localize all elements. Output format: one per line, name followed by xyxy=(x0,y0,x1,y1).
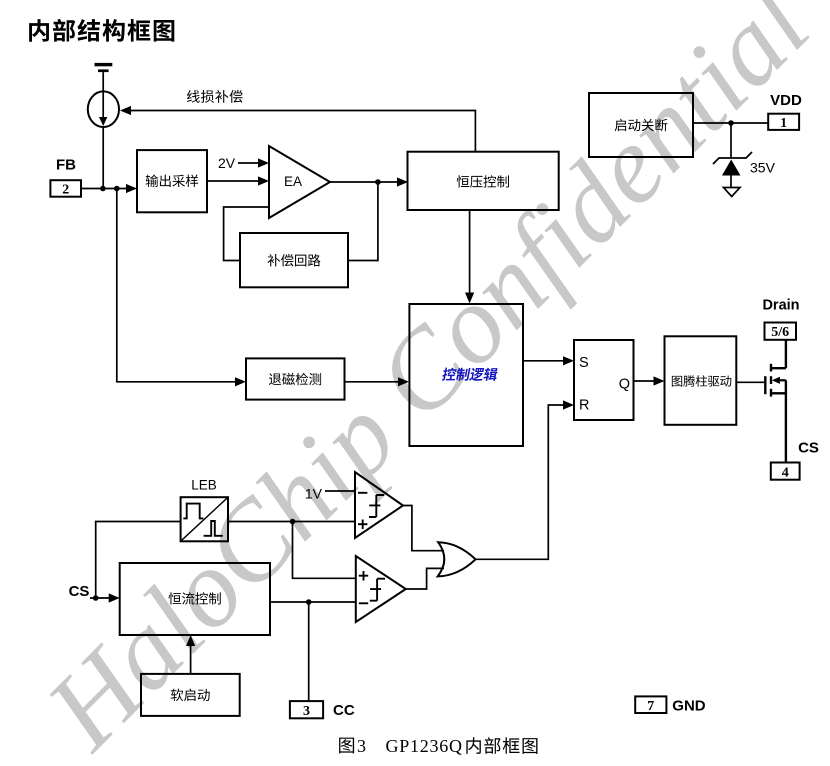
wire VDD xyxy=(693,122,768,124)
pin label CS xyxy=(798,440,819,457)
junction xyxy=(290,519,296,525)
svg-text:Drain: Drain xyxy=(762,298,799,314)
wire xyxy=(730,123,732,158)
wire xyxy=(102,126,104,189)
label 35V xyxy=(750,160,776,176)
caption 图3 xyxy=(339,736,366,756)
pin GND box 7 xyxy=(635,696,666,714)
svg-text:3: 3 xyxy=(357,736,366,756)
block 启动关断 xyxy=(589,93,693,157)
svg-text:GND: GND xyxy=(672,697,706,714)
pin label VDD xyxy=(770,92,802,109)
ground xyxy=(95,63,113,72)
wire gate xyxy=(736,381,764,383)
svg-text:S: S xyxy=(579,355,589,371)
caption GP1236Q 内部框图 xyxy=(386,736,538,756)
pin VDD box 1 xyxy=(768,114,799,131)
or gate U4 xyxy=(438,542,476,576)
svg-text:EA: EA xyxy=(284,174,302,189)
arrowhead xyxy=(398,377,409,386)
arrowhead xyxy=(109,593,120,602)
wire xyxy=(102,72,104,92)
svg-text:GP1236Q: GP1236Q xyxy=(386,736,463,756)
block 补偿回路 xyxy=(240,233,348,287)
svg-text:LEB: LEB xyxy=(191,478,217,493)
arrowhead xyxy=(258,176,269,185)
arrowhead xyxy=(120,106,131,115)
wire xyxy=(345,381,399,383)
wire xyxy=(207,180,259,182)
pin label CC xyxy=(333,702,355,719)
block 控制逻辑 xyxy=(409,304,523,446)
label 图腾柱驱动 xyxy=(672,375,731,386)
arrowhead xyxy=(654,376,665,385)
svg-text:35V: 35V xyxy=(750,160,776,176)
arrowhead xyxy=(465,293,474,304)
zener D1 35V xyxy=(713,152,752,188)
wire xyxy=(270,601,356,603)
pin label Drain xyxy=(762,298,799,314)
pin label GND xyxy=(672,697,706,714)
label 恒压控制 xyxy=(457,175,509,187)
label 线损补偿 xyxy=(187,90,243,103)
ground arrow xyxy=(724,188,741,197)
pin label CS xyxy=(69,583,90,600)
pin FB box 2 xyxy=(50,180,81,197)
svg-text:VDD: VDD xyxy=(770,92,802,109)
wire xyxy=(469,210,471,293)
block 输出采样 xyxy=(137,150,207,212)
junction xyxy=(114,186,120,192)
latch SR xyxy=(574,340,634,420)
wire CS xyxy=(90,597,109,599)
label 2V xyxy=(218,155,236,171)
wire S xyxy=(523,360,564,362)
comparator U2 xyxy=(355,472,403,538)
wire 2V xyxy=(238,162,259,164)
junction xyxy=(93,595,99,601)
svg-text:1: 1 xyxy=(780,116,787,131)
arrowhead xyxy=(126,184,137,193)
junction xyxy=(728,120,734,126)
svg-text:R: R xyxy=(579,398,589,414)
label LEB xyxy=(191,478,217,493)
svg-text:2V: 2V xyxy=(218,155,236,171)
junction xyxy=(100,186,106,192)
svg-text:3: 3 xyxy=(303,704,310,719)
wire EA out xyxy=(330,181,398,183)
wire xyxy=(96,522,181,599)
pin CS box 4 xyxy=(771,463,800,481)
svg-text:2: 2 xyxy=(62,183,69,198)
block 软启动 xyxy=(141,674,240,716)
current source I1 xyxy=(88,91,119,127)
label 退磁检测 xyxy=(269,373,321,386)
wire xyxy=(117,189,236,382)
label 补偿回路 xyxy=(268,254,321,266)
pin label FB xyxy=(56,156,76,173)
wire LEB out xyxy=(228,521,355,523)
wire xyxy=(293,522,356,579)
block 恒流控制 xyxy=(120,563,270,635)
svg-text:CC: CC xyxy=(333,702,355,719)
transistor Q1 xyxy=(765,341,786,463)
op-amp EA xyxy=(269,146,330,218)
label 控制逻辑 xyxy=(441,368,498,381)
label 输出采样 xyxy=(146,175,198,187)
wire xyxy=(308,602,310,701)
pin CC box 3 xyxy=(290,701,323,719)
svg-text:4: 4 xyxy=(782,465,789,480)
junction xyxy=(375,179,381,185)
svg-text:CS: CS xyxy=(69,583,90,600)
block 退磁检测 xyxy=(246,358,345,399)
title 内部结构框图 xyxy=(29,19,174,42)
wire 线损补偿 feedback xyxy=(131,111,475,152)
label 1V xyxy=(305,485,323,501)
svg-text:FB: FB xyxy=(56,156,76,173)
wire Q xyxy=(634,380,655,382)
svg-text:5/6: 5/6 xyxy=(771,325,789,340)
wire xyxy=(403,506,444,551)
label 软启动 xyxy=(171,689,210,701)
svg-text:CS: CS xyxy=(798,440,819,457)
wire 1V xyxy=(325,490,355,492)
svg-text:1V: 1V xyxy=(305,485,323,501)
arrowhead xyxy=(235,377,246,386)
svg-text:Q: Q xyxy=(619,377,630,393)
arrowhead xyxy=(397,177,408,186)
arrowhead xyxy=(563,356,574,365)
block 恒压控制 xyxy=(408,152,559,210)
junction xyxy=(306,599,312,605)
wire xyxy=(190,646,192,674)
block LEB xyxy=(181,497,228,541)
block 图腾柱驱动 xyxy=(665,336,737,425)
wire FB xyxy=(81,188,127,190)
arrowhead xyxy=(563,400,574,409)
wire R xyxy=(476,405,564,559)
label 启动关断 xyxy=(615,119,668,132)
pin Drain box 5/6 xyxy=(765,323,797,341)
wire feedback xyxy=(224,207,269,261)
label 恒流控制 xyxy=(168,592,220,604)
comparator U3 xyxy=(356,556,406,622)
svg-text:7: 7 xyxy=(647,699,654,714)
arrowhead xyxy=(186,635,195,646)
wire xyxy=(406,568,444,589)
arrowhead xyxy=(258,158,269,167)
wire xyxy=(348,182,378,261)
